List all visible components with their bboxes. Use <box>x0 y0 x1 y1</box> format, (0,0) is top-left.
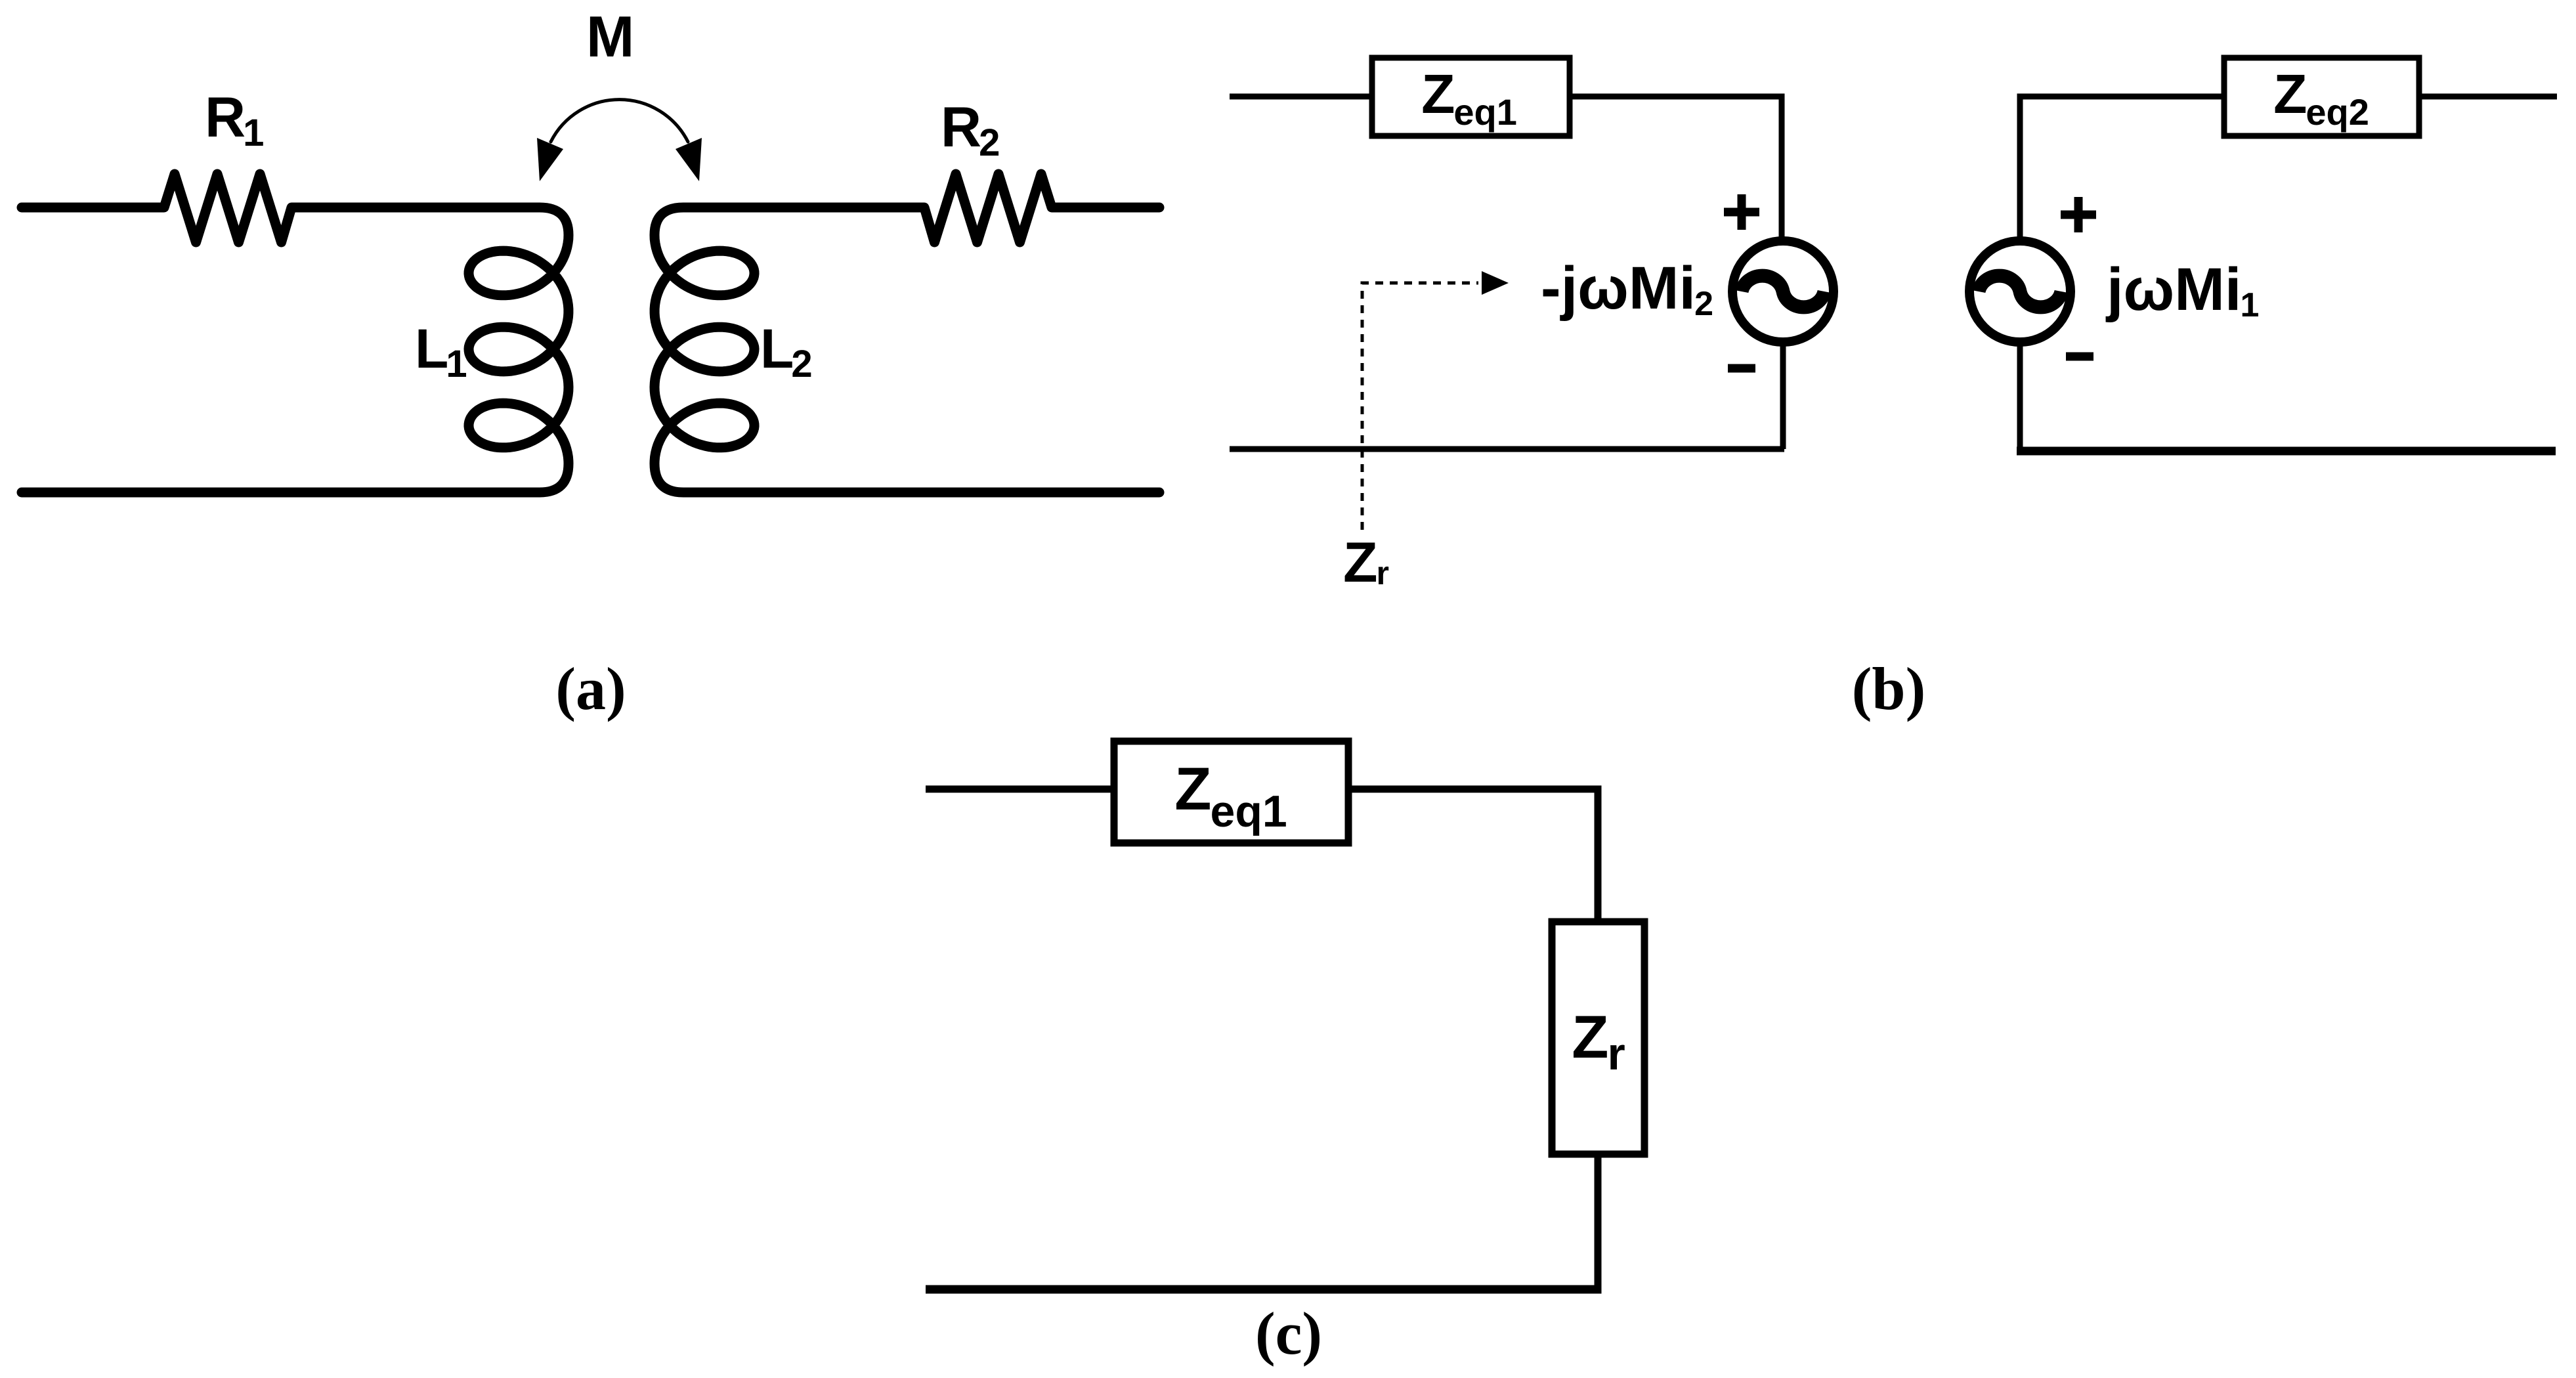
svg-text:(b): (b) <box>1852 655 1925 722</box>
svg-text:(a): (a) <box>555 655 626 722</box>
svg-text:M: M <box>586 4 634 69</box>
svg-text:-jωMi2: -jωMi2 <box>1541 255 1713 323</box>
svg-text:(c): (c) <box>1255 1300 1322 1367</box>
svg-text:jωMi1: jωMi1 <box>2105 256 2259 324</box>
